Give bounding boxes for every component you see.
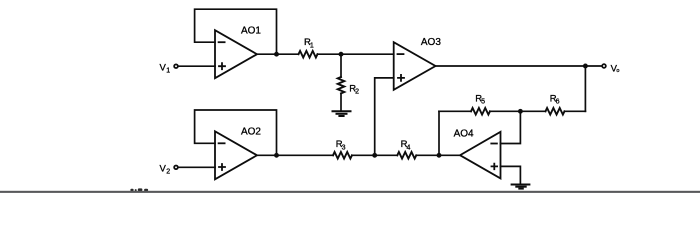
wire AO2 output to R3 xyxy=(257,154,333,156)
svg-text:AO1: AO1 xyxy=(241,26,261,37)
op-amp AO2 xyxy=(215,127,261,180)
svg-text:R6: R6 xyxy=(550,94,560,106)
op-amp AO3 xyxy=(394,37,442,90)
resistor R1 xyxy=(299,37,318,57)
svg-text:R2: R2 xyxy=(349,84,359,96)
svg-text:R4: R4 xyxy=(401,139,411,151)
wire AO1 output to R1 xyxy=(257,53,299,55)
input terminal V1 xyxy=(160,62,178,74)
input terminal V2 xyxy=(160,163,178,175)
svg-text:AO4: AO4 xyxy=(454,129,474,140)
wire AO3 + input down to R3/R4 node xyxy=(375,78,394,155)
wire R4 to AO4 output node xyxy=(416,154,460,156)
svg-text:AO2: AO2 xyxy=(241,127,261,138)
resistor R3 xyxy=(333,139,352,158)
svg-text:Vo: Vo xyxy=(611,63,620,74)
svg-text:R1: R1 xyxy=(304,37,314,49)
horizontal divider rule xyxy=(0,191,700,193)
node R5/R6/AO4- junction xyxy=(518,109,523,114)
svg-text:AO3: AO3 xyxy=(421,37,441,48)
svg-text:V2: V2 xyxy=(160,163,171,175)
wire V1 to AO1 + input xyxy=(178,65,215,67)
node AO3 output / R6 junction xyxy=(583,64,588,69)
op-amp AO1 xyxy=(215,26,261,79)
resistor R4 xyxy=(397,139,416,158)
wire AO1 feedback loop (output to inverting input) xyxy=(195,9,277,54)
ground (below R2) xyxy=(333,111,351,116)
node R1/R2 junction xyxy=(339,52,344,57)
wire AO4 + input to ground xyxy=(501,166,521,184)
node AO3 + input / bottom wire junction xyxy=(372,153,377,158)
output terminal Vo xyxy=(602,63,619,74)
wire AO3 output to Vo xyxy=(436,65,602,67)
resistor R2 xyxy=(338,54,359,110)
resistor R5 xyxy=(439,94,520,115)
wire R1 to AO3 inverting input xyxy=(318,53,394,55)
wire R3 to R4 xyxy=(352,154,397,156)
op-amp AO4 (points left) xyxy=(454,129,501,179)
wire V2 to AO2 + input xyxy=(178,166,215,168)
svg-text:V1: V1 xyxy=(160,62,171,74)
node AO2 output/feedback junction xyxy=(274,153,279,158)
node R4 / R5 branch junction xyxy=(437,153,442,158)
wire R6 up to output net xyxy=(584,66,586,111)
svg-text:R5: R5 xyxy=(475,94,485,106)
wire AO2 feedback loop (output to inverting input) xyxy=(195,110,277,155)
ground (AO4 + input) xyxy=(512,185,530,189)
node AO1 output/feedback junction xyxy=(274,52,279,57)
wire AO4 inverting input to R5/R6 node xyxy=(501,111,521,143)
wire node up to R5 xyxy=(438,111,440,155)
cropped text tops at page bottom xyxy=(130,188,148,191)
resistor R6 xyxy=(520,94,585,115)
svg-text:R3: R3 xyxy=(336,139,346,151)
